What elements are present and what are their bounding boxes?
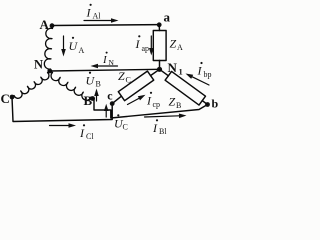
wire C to c (phase C line)	[12, 97, 112, 122]
winding source phase B (coil N-B)	[50, 71, 93, 100]
wire A to a (phase A line)	[52, 24, 159, 27]
svg-text:b: b	[212, 97, 219, 111]
current arrow İ_Cl	[50, 125, 69, 127]
current arrow İ_Al	[84, 20, 111, 22]
svg-text:c: c	[107, 89, 113, 103]
current arrow İ_Bl	[145, 116, 180, 117]
wire N1 to Z_C	[151, 69, 160, 75]
svg-text:N: N	[34, 58, 43, 72]
impedance Z_C box	[118, 71, 153, 101]
svg-text:N: N	[109, 58, 115, 67]
svg-text:A: A	[79, 46, 85, 55]
svg-text:ap: ap	[142, 44, 150, 53]
voltage arrow U̇_C	[105, 111, 107, 117]
svg-text:a: a	[164, 10, 171, 25]
neutral wire N to N1	[50, 69, 160, 71]
impedance Z_B box	[165, 71, 205, 105]
svg-text:Z: Z	[170, 37, 177, 51]
svg-text:B: B	[84, 93, 93, 108]
svg-text:1: 1	[179, 67, 183, 77]
svg-text:C: C	[126, 76, 131, 85]
svg-text:cp: cp	[153, 100, 161, 109]
wire B to b (phase B line)	[93, 99, 208, 119]
impedance Z_A box	[153, 31, 166, 61]
svg-text:U: U	[69, 39, 79, 53]
current arrow İ_N	[98, 65, 118, 67]
svg-text:B: B	[176, 101, 181, 110]
svg-text:C: C	[1, 91, 10, 106]
current arrow İ_bp	[192, 77, 209, 85]
wire a to Z_A	[158, 25, 160, 31]
wire Z_C to c	[112, 96, 121, 103]
winding source phase A (coil A-N)	[44, 28, 52, 70]
current arrow İ_cp	[128, 98, 139, 104]
svg-text:A: A	[177, 43, 183, 52]
svg-text:B: B	[96, 80, 101, 89]
svg-text:Z: Z	[118, 69, 125, 83]
current arrow İ_ap	[150, 36, 152, 48]
svg-text:U: U	[86, 74, 96, 88]
voltage arrow U̇_A	[63, 36, 65, 49]
svg-text:C: C	[123, 123, 128, 132]
wire N1 to Z_B	[160, 69, 169, 76]
voltage arrow U̇_B	[96, 96, 98, 101]
svg-text:bp: bp	[204, 70, 212, 79]
svg-text:Z: Z	[169, 95, 176, 109]
wire Z_B to b	[202, 101, 207, 105]
svg-text:Bl: Bl	[159, 127, 167, 136]
winding source phase C (coil N-C)	[12, 71, 50, 98]
wire Z_A to N1	[159, 61, 161, 70]
svg-text:Al: Al	[93, 12, 102, 21]
svg-text:Cl: Cl	[86, 132, 94, 141]
